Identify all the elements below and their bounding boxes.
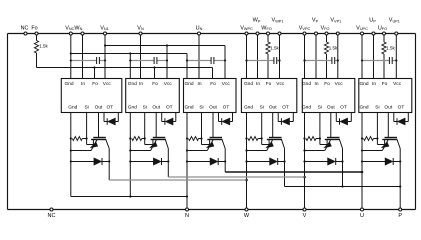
- svg-text:NC: NC: [48, 213, 56, 219]
- svg-text:Vcc: Vcc: [335, 81, 344, 87]
- svg-text:1.5k: 1.5k: [270, 46, 279, 51]
- svg-text:Vcc: Vcc: [222, 81, 231, 87]
- svg-text:W: W: [244, 213, 250, 219]
- svg-text:Si: Si: [318, 105, 322, 111]
- svg-text:Gnd: Gnd: [68, 105, 77, 111]
- svg-text:VN1: VN1: [100, 25, 109, 31]
- svg-text:1.5k: 1.5k: [329, 46, 338, 51]
- svg-text:WFO: WFO: [261, 25, 272, 31]
- svg-text:Si: Si: [199, 105, 203, 111]
- svg-text:OT: OT: [282, 105, 289, 111]
- svg-text:Out: Out: [152, 105, 160, 111]
- svg-text:WP: WP: [253, 18, 261, 24]
- svg-text:Gnd: Gnd: [302, 105, 311, 111]
- svg-text:UN: UN: [196, 25, 203, 31]
- svg-text:Out: Out: [269, 105, 277, 111]
- svg-text:OT: OT: [398, 105, 405, 111]
- svg-text:OT: OT: [223, 105, 230, 111]
- svg-text:OT: OT: [166, 105, 173, 111]
- svg-text:UP: UP: [369, 18, 376, 24]
- svg-text:Fo: Fo: [152, 81, 158, 87]
- svg-text:Gnd: Gnd: [359, 81, 368, 87]
- svg-text:OT: OT: [106, 105, 113, 111]
- svg-text:Vcc: Vcc: [276, 81, 285, 87]
- svg-text:U: U: [360, 213, 364, 219]
- svg-text:Si: Si: [260, 105, 264, 111]
- svg-text:In: In: [256, 81, 260, 87]
- svg-text:Gnd: Gnd: [244, 105, 253, 111]
- svg-text:VVP1: VVP1: [330, 18, 341, 24]
- svg-text:Gnd: Gnd: [302, 81, 311, 87]
- svg-text:Gnd: Gnd: [64, 81, 73, 87]
- svg-text:Fo: Fo: [210, 81, 216, 87]
- svg-text:Fo: Fo: [92, 81, 98, 87]
- svg-text:In: In: [197, 81, 201, 87]
- svg-text:1.5k: 1.5k: [386, 46, 395, 51]
- svg-text:V: V: [303, 213, 307, 219]
- svg-text:WN: WN: [74, 25, 82, 31]
- svg-text:Gnd: Gnd: [128, 81, 137, 87]
- svg-text:VFO: VFO: [321, 25, 330, 31]
- svg-text:Gnd: Gnd: [244, 81, 253, 87]
- svg-text:Gnd: Gnd: [128, 105, 137, 111]
- svg-text:P: P: [398, 213, 402, 219]
- svg-text:Vcc: Vcc: [103, 81, 112, 87]
- svg-text:Gnd: Gnd: [184, 81, 193, 87]
- svg-text:Fo: Fo: [31, 25, 37, 31]
- svg-text:Si: Si: [143, 105, 147, 111]
- svg-text:NC: NC: [21, 25, 29, 31]
- svg-text:VP: VP: [312, 18, 319, 24]
- svg-text:In: In: [314, 81, 318, 87]
- svg-text:OT: OT: [340, 105, 347, 111]
- svg-text:Si: Si: [375, 105, 379, 111]
- svg-text:N: N: [185, 213, 189, 219]
- svg-text:1.5k: 1.5k: [39, 44, 48, 49]
- svg-text:Fo: Fo: [324, 81, 330, 87]
- svg-text:Fo: Fo: [266, 81, 272, 87]
- svg-text:UFO: UFO: [378, 25, 387, 31]
- svg-text:VUPC: VUPC: [356, 25, 368, 31]
- svg-text:VN: VN: [137, 25, 144, 31]
- svg-text:Out: Out: [384, 105, 392, 111]
- svg-text:VUP1: VUP1: [389, 18, 400, 24]
- svg-text:Fo: Fo: [382, 81, 388, 87]
- svg-text:In: In: [372, 81, 376, 87]
- svg-text:In: In: [81, 81, 85, 87]
- svg-text:VWPC: VWPC: [240, 25, 253, 31]
- svg-text:Gnd: Gnd: [359, 105, 368, 111]
- svg-text:In: In: [139, 81, 143, 87]
- svg-text:Vcc: Vcc: [164, 81, 173, 87]
- svg-text:VVPC: VVPC: [299, 25, 311, 31]
- svg-text:Out: Out: [327, 105, 335, 111]
- svg-text:Gnd: Gnd: [184, 105, 193, 111]
- svg-text:VNC: VNC: [65, 25, 74, 31]
- svg-text:Out: Out: [95, 105, 103, 111]
- svg-text:Out: Out: [209, 105, 217, 111]
- svg-text:VWP1: VWP1: [272, 18, 284, 24]
- svg-text:Si: Si: [84, 105, 88, 111]
- svg-text:Vcc: Vcc: [393, 81, 402, 87]
